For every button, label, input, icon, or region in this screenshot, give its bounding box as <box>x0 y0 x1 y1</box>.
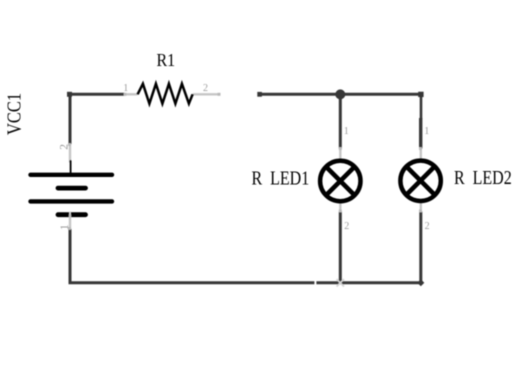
svg-text:1: 1 <box>123 83 128 94</box>
svg-text:2: 2 <box>344 221 349 232</box>
svg-text:R1: R1 <box>157 51 176 71</box>
svg-text:1: 1 <box>59 224 71 230</box>
svg-text:1: 1 <box>424 126 429 137</box>
svg-text:2: 2 <box>58 144 70 150</box>
svg-text:2: 2 <box>203 83 208 94</box>
svg-text:1: 1 <box>344 126 349 137</box>
svg-text:R LED1: R LED1 <box>252 167 310 189</box>
svg-text:2: 2 <box>425 221 430 232</box>
svg-text:VCC1: VCC1 <box>3 93 25 135</box>
svg-text:R LED2: R LED2 <box>454 166 512 188</box>
